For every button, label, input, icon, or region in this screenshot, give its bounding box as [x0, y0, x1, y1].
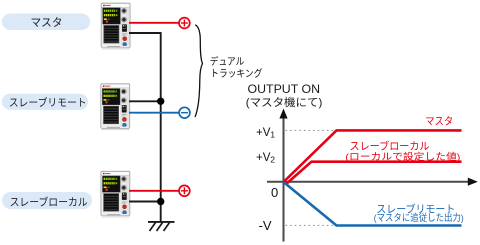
wire PSU1 - (black, to bus)	[129, 32, 161, 34]
svg-text:トラッキング: トラッキング	[210, 67, 262, 80]
wire PSU2 + (black, to bus)	[129, 100, 161, 102]
power supply PSU3 スレーブローカル	[101, 171, 130, 217]
svg-text:マスタ: マスタ	[425, 116, 453, 128]
svg-text:(マスタ機にて): (マスタ機にて)	[246, 95, 322, 109]
svg-text:スレーブローカル: スレーブローカル	[350, 139, 430, 152]
svg-text:スレーブリモート: スレーブリモート	[9, 96, 87, 109]
wire PSU1 + (red)	[129, 22, 179, 24]
svg-text:+V2: +V2	[256, 152, 275, 165]
junction bus/PSU3	[157, 198, 164, 205]
junction bus/PSU2	[157, 98, 164, 105]
svg-text:(ローカルで設定した値): (ローカルで設定した値)	[345, 151, 460, 163]
label pill スレーブローカル	[2, 192, 92, 209]
wire bus vertical	[160, 32, 162, 222]
label pill スレーブリモート	[2, 94, 88, 110]
dotted level -V	[286, 224, 335, 226]
wire PSU2 - (blue)	[129, 112, 179, 114]
brace dual tracking	[195, 25, 203, 117]
power supply PSU2 スレーブリモート	[101, 84, 130, 130]
wire PSU3 + (red)	[129, 190, 179, 192]
svg-text:デュアル: デュアル	[210, 55, 245, 68]
svg-text:(マスタに追従した出力): (マスタに追従した出力)	[374, 212, 464, 224]
wire PSU3 - (black, to bus)	[129, 201, 161, 203]
label pill マスタ	[2, 14, 90, 31]
x-axis	[267, 178, 478, 186]
ground	[148, 222, 175, 231]
svg-text:OUTPUT ON: OUTPUT ON	[248, 84, 321, 96]
dotted level +V1	[286, 129, 335, 131]
svg-text:-V: -V	[259, 218, 272, 233]
power supply PSU1 マスタ	[101, 3, 130, 49]
svg-text:+V1: +V1	[256, 127, 275, 140]
curve スレーブリモート (blue, -V)	[284, 182, 462, 226]
curve スレーブローカル (red, +V2)	[286, 162, 461, 184]
curve マスタ (red, +V1)	[284, 130, 462, 182]
svg-text:スレーブローカル: スレーブローカル	[10, 195, 88, 208]
svg-text:0: 0	[271, 185, 278, 200]
svg-text:マスタ: マスタ	[31, 16, 63, 29]
terminal + of PSU3	[179, 185, 190, 196]
terminal - of PSU2	[179, 107, 190, 118]
annotation デュアルトラッキング	[210, 55, 262, 80]
terminal + of PSU1	[179, 18, 190, 29]
y-axis	[279, 109, 287, 242]
